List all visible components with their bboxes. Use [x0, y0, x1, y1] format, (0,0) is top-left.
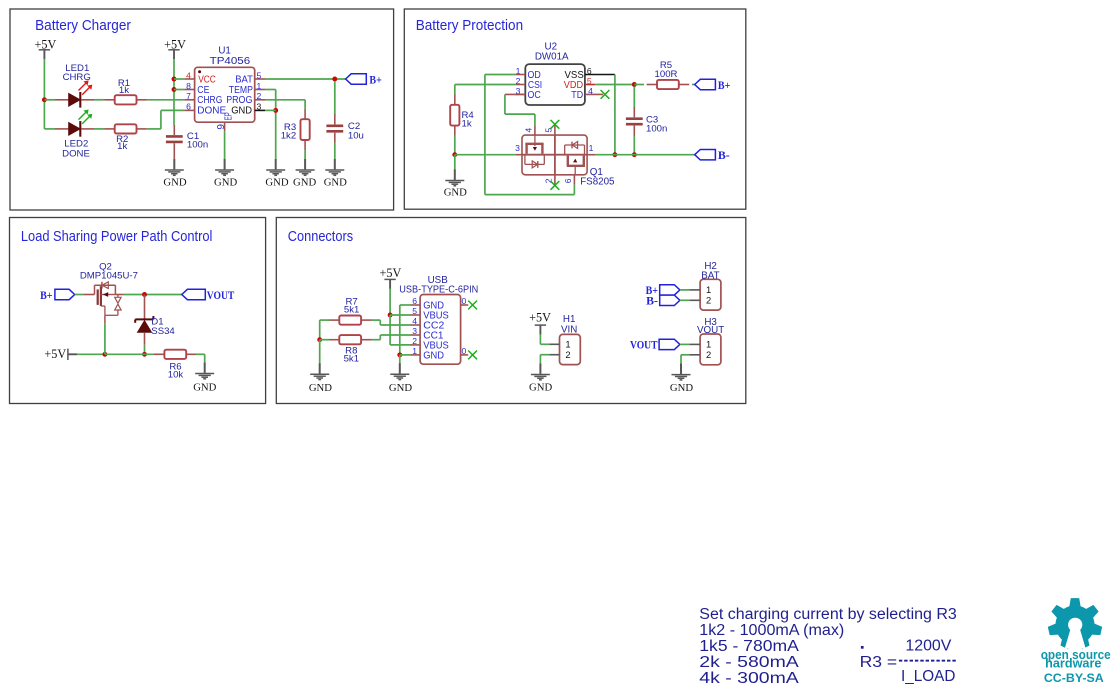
Q1 internal source link [554, 135, 556, 175]
wire down to Q1 pin4 [534, 114, 536, 125]
wire OD bottom across [485, 194, 575, 196]
wire R8 jog up [379, 335, 381, 340]
connector USB USB-TYPE-C-6PIN body [420, 295, 461, 365]
svg-text:GND: GND [293, 176, 316, 188]
USB pin 4 CC2 [411, 316, 445, 332]
svg-text:7: 7 [186, 91, 191, 101]
svg-text:2k - 580mA: 2k - 580mA [699, 654, 799, 671]
svg-text:TP4056: TP4056 [210, 56, 251, 67]
svg-text:1k2: 1k2 [281, 131, 296, 142]
wire +5V to gate [77, 353, 105, 355]
wire pin3 GND to junction [265, 109, 276, 111]
svg-text:2: 2 [706, 349, 711, 360]
svg-text:4: 4 [588, 86, 593, 96]
USB shield pin 0 bottom [461, 346, 469, 356]
svg-text:+5V: +5V [380, 266, 402, 280]
wire to H1 pin1 [540, 343, 549, 345]
port B- (protection) [695, 150, 730, 163]
sheet box Connectors [276, 218, 746, 404]
wire VDD to junction [595, 84, 634, 86]
connector H1 VIN body [560, 334, 581, 364]
wire CSI left [455, 84, 516, 86]
svg-text:1k2 - 1000mA (max): 1k2 - 1000mA (max) [699, 622, 844, 639]
wire junction down to C2 [334, 81, 336, 115]
no-connect shield top [468, 301, 477, 310]
junction BAT/C2 [332, 77, 337, 82]
svg-text:5k1: 5k1 [344, 305, 359, 316]
sheet box Battery Protection [404, 9, 746, 209]
pin 1 TEMP [229, 81, 265, 96]
pin 6 VSS [565, 66, 615, 81]
svg-text:0: 0 [462, 346, 467, 356]
op-amp U1 TP4056 body [195, 67, 255, 122]
resistor R2 1k [104, 124, 147, 152]
svg-text:GND: GND [423, 351, 444, 362]
ground (load sharing) [193, 362, 216, 393]
svg-text:GND: GND [214, 176, 237, 188]
wire R7 left corner [320, 319, 330, 321]
svg-text:VIN: VIN [561, 325, 577, 336]
wire corner down [204, 354, 206, 362]
junction C3/B- [632, 152, 637, 157]
wire OC down [504, 94, 506, 114]
Q1 left body diode [525, 155, 544, 168]
svg-text:2: 2 [516, 76, 521, 86]
wire VOUT to H3 [680, 343, 689, 345]
wire jog to pin DONE [161, 109, 184, 111]
svg-text:1k5 - 780mA: 1k5 - 780mA [699, 638, 799, 655]
svg-text:4k - 300mA: 4k - 300mA [699, 670, 799, 687]
wire bottom up to Q1 pin6 [573, 184, 575, 194]
svg-text:TD: TD [571, 90, 583, 101]
resistor R3 1k2 [281, 109, 310, 150]
transistor Q1 FS8205 body [522, 135, 587, 175]
logo open source hardware gear [1048, 598, 1102, 649]
wire C3 top [633, 87, 635, 109]
wire R5 to B+ [692, 84, 695, 86]
wire CSI down to R4 [454, 85, 456, 95]
wire +5V down to VBUS [389, 288, 391, 315]
wire R2 right to jog [147, 128, 161, 130]
wire R6 to corner [196, 353, 205, 355]
wire +5V down to LED1 row [43, 59, 45, 99]
svg-text:VOUT: VOUT [207, 290, 235, 302]
wire to pin VCC [174, 78, 184, 80]
Q1 pin 2 stub [543, 175, 555, 186]
port B- (H2) [646, 295, 680, 307]
svg-text:100n: 100n [187, 140, 208, 151]
wire gate vert [104, 324, 106, 355]
wire H1 gnd down [539, 355, 541, 364]
wire to pin CE [174, 89, 184, 91]
svg-text:2: 2 [257, 91, 262, 101]
svg-text:B+: B+ [369, 74, 381, 86]
USB shield pin 0 top [461, 296, 469, 306]
svg-text:DONE: DONE [62, 148, 90, 159]
no-connect Q1 pin2 [551, 181, 560, 190]
junction gate/+5V [102, 352, 107, 357]
svg-text:4: 4 [523, 128, 533, 133]
svg-text:5: 5 [412, 306, 417, 316]
wire VBUS2 to pin 2 [390, 344, 410, 346]
Q1 pin 5 stub [543, 124, 555, 135]
wire Q1 pin3 to R4 junction [455, 154, 516, 156]
capacitor C1 100n [166, 125, 208, 159]
wire Q1 pin1 to B- [595, 154, 694, 156]
wire junction to R5 [634, 84, 644, 86]
svg-text:CC-BY-SA: CC-BY-SA [1044, 671, 1104, 685]
svg-text:EP: EP [224, 112, 235, 120]
junction VBUS [388, 313, 393, 318]
no-connect TD [601, 90, 610, 99]
junction R4/B- [452, 152, 457, 157]
wire R7 jog down [379, 320, 381, 325]
ground (under R3) [293, 159, 316, 189]
ground (under USB) [389, 363, 412, 394]
junction VOUT/D1 [142, 292, 147, 297]
svg-text:2: 2 [565, 349, 570, 360]
note text charging current [699, 606, 957, 687]
wire GND net down [399, 355, 401, 363]
wire C3 bottom to B- row [633, 136, 635, 155]
junction CE [172, 87, 177, 92]
svg-text:3: 3 [257, 102, 262, 112]
pin 4 VCC [184, 70, 216, 85]
wire LED1 junction down to LED2 row [43, 100, 45, 129]
svg-text:3: 3 [515, 143, 520, 153]
svg-text:B+: B+ [40, 290, 52, 302]
svg-text:4: 4 [412, 316, 417, 326]
diode D1 SS34 [135, 295, 175, 345]
pin 6 DONE [184, 102, 226, 117]
svg-text:6: 6 [563, 178, 573, 183]
pin 2 CSI [515, 76, 542, 91]
note formula R3 [860, 637, 956, 685]
USB pin 1 GND [411, 346, 445, 362]
svg-text:8: 8 [186, 81, 191, 91]
port B+ (protection) [695, 79, 731, 92]
USB pin 6 GND [411, 296, 445, 312]
svg-text:4: 4 [186, 70, 191, 80]
no-connect shield bottom [468, 351, 477, 360]
svg-text:1: 1 [706, 284, 711, 295]
svg-text:USB-TYPE-C-6PIN: USB-TYPE-C-6PIN [399, 284, 478, 295]
ground (under H1) [529, 363, 552, 393]
port B+ (load sharing) [40, 289, 75, 302]
svg-text:GND: GND [309, 382, 332, 394]
H2 pin 1 [689, 284, 711, 295]
svg-text:6: 6 [412, 296, 417, 306]
svg-text:B-: B- [718, 150, 730, 162]
svg-text:R3 =: R3 = [860, 654, 898, 671]
wire VSS down to B- row [614, 75, 616, 155]
wire R7 right [371, 319, 380, 321]
connector H2 BAT body [700, 279, 721, 310]
resistor R8 5k1 [329, 335, 372, 364]
junction LED anodes [42, 97, 47, 102]
svg-text:1: 1 [516, 66, 521, 76]
svg-text:1: 1 [589, 143, 594, 153]
pin 1 OD [515, 66, 541, 81]
H3 pin 1 [689, 339, 711, 350]
port VOUT (load sharing) [182, 289, 235, 302]
svg-text:+5V: +5V [44, 347, 66, 361]
wire R4 down to B- row [454, 136, 456, 155]
wire down to ground (R7R8) [319, 340, 321, 363]
svg-text:B-: B- [646, 296, 658, 308]
ground (under C1) [163, 159, 186, 189]
wire +5V down [539, 334, 541, 344]
power +5V (charger left) [35, 37, 57, 59]
pin 5 BAT [235, 70, 265, 85]
junction GND/TEMP [273, 108, 278, 113]
wire +5V down to VBUS2 [389, 315, 391, 345]
svg-text:GND: GND [670, 382, 693, 394]
H1 pin 2 [549, 349, 570, 360]
sheet box Load Sharing Power Path Control [10, 218, 266, 404]
svg-text:5: 5 [587, 76, 592, 86]
svg-text:GND: GND [324, 176, 347, 188]
USB pin 2 VBUS [411, 336, 449, 352]
svg-text:1k: 1k [462, 118, 472, 129]
wire B- to H2 [680, 299, 689, 301]
svg-text:5k1: 5k1 [344, 353, 359, 364]
wire VBUS to pin 5 [390, 314, 410, 316]
svg-text:+5V: +5V [529, 311, 551, 325]
sheet box Battery Charger [10, 9, 394, 210]
svg-text:100n: 100n [646, 123, 667, 134]
wire +5V down to C1 [173, 59, 175, 125]
wire LED2 to R2 [94, 128, 104, 130]
svg-text:GND: GND [529, 382, 552, 394]
wire anode to LED1 [44, 99, 55, 101]
port B+ (charger) [346, 74, 382, 87]
svg-text:1: 1 [706, 339, 711, 350]
svg-text:1: 1 [257, 81, 262, 91]
svg-text:6: 6 [186, 102, 191, 112]
wire C2 to ground [334, 143, 336, 159]
svg-text:1: 1 [565, 339, 570, 350]
wire Q2 drain to VOUT [124, 294, 182, 296]
svg-text:Battery Protection: Battery Protection [416, 17, 523, 34]
pin 9 EP [216, 112, 235, 131]
svg-text:DONE: DONE [197, 105, 226, 116]
wire H3 pin2 left [681, 354, 689, 356]
pin 2 PROG [226, 91, 265, 106]
pin 3 OC [515, 86, 541, 101]
wire R8 right [371, 339, 380, 341]
wire PROG right [265, 99, 305, 101]
svg-text:10k: 10k [168, 370, 184, 381]
resistor R4 1k [450, 95, 474, 136]
ground (under C2) [324, 159, 347, 189]
svg-text:VOUT: VOUT [630, 340, 658, 352]
svg-text:100R: 100R [655, 69, 678, 80]
wire R3 to ground [304, 150, 306, 159]
resistor R1 1k [104, 78, 147, 104]
wire OD left [485, 74, 515, 76]
svg-text:DW01A: DW01A [535, 51, 569, 62]
svg-text:Set charging current by select: Set charging current by selecting R3 [699, 606, 957, 623]
svg-text:Connectors: Connectors [288, 228, 353, 245]
junction VDD/C3 [632, 82, 637, 87]
wire anode to LED2 [44, 128, 55, 130]
Q1 pin 1 stub [587, 143, 595, 155]
pin 4 TD [571, 86, 603, 101]
svg-text:GND: GND [163, 176, 186, 188]
Q1 left mosfet [525, 135, 543, 154]
resistor R6 10k [154, 350, 197, 381]
wire to pin CC1 [380, 334, 410, 336]
pin 3 GND [231, 102, 265, 117]
svg-text:B+: B+ [718, 80, 730, 92]
pin 8 CE [184, 81, 209, 96]
wire jog up to DONE row [160, 110, 162, 128]
wire junction down to ground [454, 155, 456, 170]
wire to pin CC2 [380, 324, 410, 326]
ground (under EP) [214, 159, 237, 189]
wire OC stub [505, 93, 525, 95]
Q1 right body diode [565, 142, 585, 155]
svg-text:1k: 1k [119, 85, 129, 96]
svg-text:DMP1045U-7: DMP1045U-7 [80, 271, 138, 282]
junction D1/+5V [142, 352, 147, 357]
wire D1 to +5V row [144, 345, 146, 355]
LED LED1 CHRG [55, 63, 94, 108]
svg-text:1: 1 [412, 346, 417, 356]
USB pin 3 CC1 [411, 326, 444, 342]
svg-text:1k: 1k [117, 141, 127, 152]
wire BAT to B+ [265, 78, 346, 80]
wire LED1 to R1 [94, 99, 104, 101]
Q1 pin 4 stub [523, 125, 535, 135]
svg-text:2: 2 [412, 336, 417, 346]
wire R8 left [320, 339, 330, 341]
junction GND net [397, 352, 402, 357]
svg-text:0: 0 [462, 296, 467, 306]
Q1 pin 6 stub [563, 175, 574, 185]
port B+ (H2) [646, 285, 680, 298]
USB pin 5 VBUS [411, 306, 449, 322]
wire OC across to gate1 [505, 113, 535, 115]
svg-text:Battery Charger: Battery Charger [35, 17, 131, 34]
svg-text:Load Sharing Power Path Contro: Load Sharing Power Path Control [21, 228, 213, 245]
svg-text:+5V: +5V [35, 37, 57, 51]
H2 pin 2 [689, 295, 711, 306]
svg-text:hardware: hardware [1045, 656, 1101, 671]
op-amp U2 DW01A body [525, 64, 585, 105]
wire PROG down to R3 [304, 100, 306, 109]
Q1 internal B- rail [522, 154, 587, 156]
svg-text:H1: H1 [563, 314, 576, 325]
wire H3 gnd down [680, 355, 682, 364]
wire GND net top corner [400, 304, 411, 306]
wire EP to ground [224, 131, 226, 159]
svg-text:GND: GND [193, 381, 216, 393]
junction VCC [172, 77, 177, 82]
H1 pin 1 [549, 339, 570, 350]
capacitor C2 10u [326, 114, 364, 143]
svg-text:9: 9 [216, 124, 227, 130]
connector H3 VOUT body [700, 334, 721, 365]
svg-text:+5V: +5V [164, 37, 186, 51]
svg-text:6: 6 [587, 66, 592, 76]
svg-text:I_LOAD: I_LOAD [901, 668, 955, 685]
ground (protection) [444, 169, 467, 198]
svg-text:10u: 10u [348, 130, 364, 141]
port VOUT (H3) [630, 339, 680, 352]
svg-text:BAT: BAT [701, 270, 719, 281]
junction R8 left [317, 337, 322, 342]
wire B+ to Q2 [75, 294, 84, 296]
svg-text:3: 3 [412, 326, 417, 336]
capacitor C3 100n [626, 107, 667, 136]
power +5V (load sharing) [44, 347, 77, 361]
svg-text:U1: U1 [218, 46, 231, 57]
pin 5 VDD [564, 76, 595, 91]
svg-text:SS34: SS34 [151, 326, 175, 337]
transistor Q2 DMP1045U-7 [83, 282, 123, 324]
resistor R5 100R [647, 60, 690, 89]
svg-text:1200V: 1200V [905, 637, 952, 654]
power +5V (charger at U1) [164, 37, 186, 59]
wire GND net vert [399, 305, 401, 355]
svg-text:CHRG: CHRG [63, 72, 91, 83]
wire R1 to pin CHRG [147, 99, 184, 101]
junction VSS/B- [612, 152, 617, 157]
Q1 pin 3 stub [515, 143, 522, 155]
wire B+ to H2 [680, 289, 689, 291]
svg-text:2: 2 [706, 295, 711, 306]
wire +5V row to R6 [105, 353, 155, 355]
svg-text:GND: GND [265, 176, 288, 188]
resistor R7 5k1 [329, 297, 372, 325]
svg-text:VOUT: VOUT [697, 325, 724, 336]
wire TEMP down to ground [275, 90, 277, 159]
wire GND net to pin 1 [400, 354, 411, 356]
Q1 right mosfet [567, 156, 585, 175]
LED LED2 DONE [55, 110, 94, 160]
ground (under H3) [670, 363, 693, 394]
ground (under pin3) [265, 159, 288, 189]
wire TEMP right [265, 89, 276, 91]
svg-text:OC: OC [528, 90, 542, 101]
no-connect Q1 pin5 [551, 120, 560, 129]
svg-text:GND: GND [389, 382, 412, 394]
svg-text:5: 5 [257, 70, 262, 80]
power +5V (USB) [380, 266, 402, 289]
svg-text:GND: GND [444, 187, 467, 199]
wire OD down [484, 75, 486, 195]
H3 pin 2 [689, 349, 711, 360]
power +5V (H1) [529, 311, 551, 335]
wire H1 pin2 left [540, 354, 549, 356]
wire left vert R7-R8 [319, 320, 321, 340]
ground (under R7R8) [309, 363, 332, 394]
pin 7 CHRG [184, 91, 222, 106]
svg-text:FS8205: FS8205 [580, 177, 615, 188]
